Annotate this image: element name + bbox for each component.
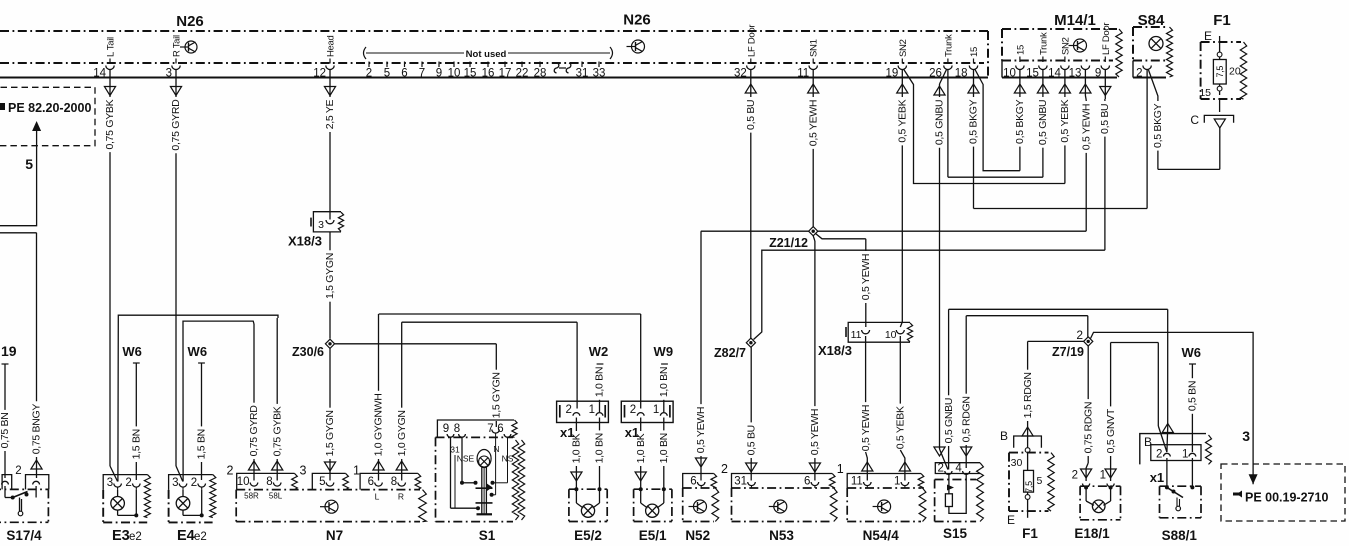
label S17/4 [6,528,42,543]
svg-text:3: 3 [318,219,324,231]
svg-text:15: 15 [1199,87,1211,99]
wire 0,5 YEWH Z21/12 to M14/1 pin13 [818,70,1093,232]
svg-text:0,5 GNBU: 0,5 GNBU [943,398,955,443]
svg-text:28: 28 [534,68,547,80]
svg-text:0,5 YEWH: 0,5 YEWH [860,254,872,300]
svg-text:0,5 BKGY: 0,5 BKGY [1014,99,1026,144]
svg-text:8: 8 [266,476,272,488]
svg-text:1: 1 [1100,470,1106,482]
svg-text:15: 15 [1026,68,1039,80]
fuse element 7,5A (top) [1199,36,1241,112]
wire 0,75 GYRD E4e2 pin3 to N7 pin10 58R [183,321,260,481]
svg-text:R Tail: R Tail [172,35,183,57]
svg-text:0,75 RDGN: 0,75 RDGN [1082,402,1094,454]
svg-text:11: 11 [851,476,863,488]
wire 2,5 YE N26 pin12 to X18/3 pin3 [324,70,336,220]
svg-text:2: 2 [721,462,728,476]
svg-text:6: 6 [804,476,810,488]
svg-text:E: E [1007,513,1015,527]
ground W6 (E4e2) [188,344,208,480]
svg-text:0,5 YEBK: 0,5 YEBK [897,99,909,142]
N26 pin 26 (Trunk) [929,34,954,95]
svg-text:3: 3 [172,477,178,489]
svg-text:15: 15 [969,47,980,57]
svg-text:S15: S15 [943,526,968,541]
svg-text:W6: W6 [122,344,142,359]
svg-text:1,5 BN: 1,5 BN [131,429,143,459]
svg-text:5: 5 [25,156,33,172]
reference box PE 82.20-2000 [0,87,95,145]
wire 0,5 BKGY N26 pin18 to M14/1 pin10 [975,70,1026,171]
N26 pin 11 (SN1) [797,39,819,93]
N26 pin 32 (LF Door) [734,25,757,93]
svg-text:31: 31 [734,476,747,488]
svg-text:E5/1: E5/1 [639,528,667,543]
svg-text:2: 2 [1076,328,1083,342]
svg-text:2: 2 [937,463,943,475]
svg-text:0,5 GNBU: 0,5 GNBU [1037,100,1049,145]
label M14/1 [1054,12,1096,29]
lamp-monitor symbol in N26 (center) [627,40,645,53]
svg-text:1: 1 [1182,449,1188,461]
svg-text:Not used: Not used [466,49,507,60]
svg-text:PE 82.20-2000: PE 82.20-2000 [8,101,91,115]
solder joint Z7/19 [1052,328,1093,359]
label N26 (left) [176,13,204,30]
svg-text:32: 32 [734,68,747,80]
switch S17/4 [0,465,49,522]
svg-text:W6: W6 [188,344,208,359]
svg-text:0,5 YEBK: 0,5 YEBK [1059,99,1071,142]
svg-text:6: 6 [368,476,374,488]
svg-text:F1: F1 [1213,12,1231,29]
control unit M14/1 box [1002,29,1122,78]
svg-text:F1: F1 [1022,526,1038,541]
wire 1,5 GYGN X18/3 to Z30/6 [324,232,336,339]
wire 0,5 GNVT E18/1 pin1 to S88/1 pin2 [1105,343,1167,482]
svg-text:N26: N26 [623,12,651,29]
switch S88/1 [1160,458,1202,518]
wire 0,5 YEWH Z21/12 to N52 pin6 [695,231,808,480]
wire 1,0 GYGN N7 pin8 to x1 (W2) [396,322,577,480]
solder joint Z30/6 [292,339,335,359]
N26 unused pin numbers row [366,62,606,80]
connector B bracket (F1) [1000,429,1041,448]
svg-text:2: 2 [125,477,131,489]
svg-text:Trunk: Trunk [943,34,954,57]
lamp E18/1 [1072,470,1121,520]
svg-text:Z30/6: Z30/6 [292,345,324,359]
svg-text:0,5 BU: 0,5 BU [745,425,757,455]
svg-text:1,5 BN: 1,5 BN [196,429,208,459]
svg-text:26: 26 [929,68,942,80]
svg-text:E: E [1204,29,1212,43]
label S15 [943,526,968,541]
svg-text:1,0 GYGN: 1,0 GYGN [396,410,408,456]
label S1 [479,528,496,543]
svg-text:2: 2 [565,404,571,416]
svg-text:C: C [1190,113,1199,127]
lamp-monitor symbol in N26 (left) [180,41,197,53]
svg-text:2: 2 [15,465,21,477]
S84 pin 2 [1136,66,1151,80]
wire 1,5 GYGN Z30/6 to N7 pin5 [324,349,336,481]
wire 0,5 YEWH Z21/12 to X18/3 pin11 [816,234,873,328]
svg-text:N52: N52 [685,528,710,543]
svg-text:8: 8 [454,423,460,435]
svg-text:58L: 58L [269,492,283,501]
svg-text:0,5 YEBK: 0,5 YEBK [895,406,907,449]
wire 0,5 BKGY S84 pin2 to F1 C [1149,70,1220,169]
svg-text:1: 1 [894,476,900,488]
wire 0,75 GYRD N26 pin3 to E4e2 pin3 [170,70,183,482]
svg-text:0,75 GYBK: 0,75 GYBK [271,406,283,456]
svg-text:15: 15 [1015,45,1026,55]
svg-text:10: 10 [448,68,461,80]
svg-text:8: 8 [391,476,397,488]
svg-text:W9: W9 [654,344,674,359]
svg-text:LF Door: LF Door [746,25,757,57]
label N53 [769,528,794,543]
svg-text:0,5 GNBU: 0,5 GNBU [934,100,946,145]
wire 0,5 YEWH N26 pin11 to N53 pin6 through Z21/12 [807,70,821,481]
svg-text:20: 20 [1229,66,1241,78]
svg-text:E18/1: E18/1 [1074,526,1110,541]
M14/1 pin 9 (LF Door) [1095,23,1112,80]
svg-text:0,5 YEWH: 0,5 YEWH [1080,104,1092,150]
wire 0,5 YEBK N26 pin19 to X18/3 pin10 [897,70,909,328]
svg-text:0,5 YEWH: 0,5 YEWH [695,407,707,453]
control module N52 [683,474,719,522]
svg-text:SN2: SN2 [898,39,909,57]
wire 0,5 GNBU N26 pin26 to M14/1 pin15 [948,70,1049,178]
svg-text:1,0 BN: 1,0 BN [658,433,670,463]
control module N53 [721,462,837,522]
svg-text:19: 19 [886,68,899,80]
label F1 (top) [1213,12,1231,29]
svg-text:S84: S84 [1138,12,1165,29]
svg-text:10: 10 [885,329,897,341]
svg-text:1,0 BN: 1,0 BN [658,367,670,397]
svg-text:e2: e2 [129,531,142,543]
svg-text:N: N [493,444,499,454]
switch S15 [935,463,984,522]
svg-text:3: 3 [107,477,113,489]
connector x1 (W9) [621,401,673,440]
svg-text:1: 1 [589,404,595,416]
svg-text:SN2: SN2 [1060,37,1071,55]
N26 pin 19 (SN2) [886,39,909,93]
label S88/1 [1162,528,1198,543]
svg-text:4: 4 [955,463,962,475]
fuse F1 (bottom) [1007,448,1054,527]
svg-text:0,75 GYRD: 0,75 GYRD [170,99,182,151]
svg-text:0,5 BKGY: 0,5 BKGY [1152,103,1164,148]
svg-text:1,5 GYGN: 1,5 GYGN [491,372,503,418]
svg-text:1,5 GYGN: 1,5 GYGN [324,410,336,456]
svg-text:1,0 BN: 1,0 BN [594,367,606,397]
tail lamp E3e2 [103,475,150,523]
svg-text:N53: N53 [769,528,794,543]
svg-text:0,5 BU: 0,5 BU [1099,104,1111,134]
svg-text:16: 16 [482,68,495,80]
connector x1 (S88/1) with housing B [1140,434,1212,485]
solder joint Z82/7 [714,338,755,360]
svg-text:X18/3: X18/3 [818,343,852,358]
svg-text:1,0 GYGNWH: 1,0 GYGNWH [373,393,385,456]
svg-text:1: 1 [353,464,360,478]
svg-text:3: 3 [300,464,307,478]
control module N54/4 [837,462,926,522]
svg-text:9: 9 [1095,68,1101,80]
label E3e2 [112,528,142,544]
svg-text:14: 14 [1048,68,1061,80]
svg-text:0,5 YEWH: 0,5 YEWH [860,405,872,451]
svg-text:6: 6 [401,68,407,80]
svg-text:14: 14 [93,68,106,80]
svg-text:5: 5 [384,68,390,80]
wire 0,5 YEBK N26 pin19 to M14/1 pin14 [904,70,1071,184]
wire 0,75 RDGN Z7/19 to E18/1 pin2 [1081,346,1095,481]
svg-text:5: 5 [319,476,325,488]
svg-text:2: 2 [191,477,197,489]
svg-text:31: 31 [576,68,589,80]
svg-text:1: 1 [837,462,844,476]
svg-text:0,75 BN: 0,75 BN [0,412,11,448]
wire 0,5 YEBK X18/3 pin10 to N54/4 pin1 [895,336,911,481]
ground W6 (S88/1) [1181,345,1201,452]
svg-text:1: 1 [653,404,659,416]
svg-text:0,5 GNVT: 0,5 GNVT [1105,408,1117,453]
wire 1,0 GYGNWH N7 pin6 to x1 (W9) [373,314,641,481]
svg-text:2: 2 [227,464,234,478]
M14/1 pin 15 (Trunk) [1026,32,1049,79]
label N7 [326,528,343,543]
wire 0,5 BU N26 pin32 to N53 pin31 through Z82/7 [745,70,757,481]
wire 0,5 RDGN S15 pin4 to Z7/19 [960,316,1087,468]
N26 pin 18 (15) [955,47,980,93]
wire 0,5 YEWH X18/3 pin11 to N54/4 pin11 [860,336,873,481]
svg-text:Z82/7: Z82/7 [714,346,746,360]
svg-text:e2: e2 [194,531,207,543]
svg-text:2: 2 [1156,449,1162,461]
M14/1 pin 14 (SN2) [1048,37,1071,79]
svg-text:S88/1: S88/1 [1162,528,1198,543]
wire 1,5 GYGN Z30/6 to S1 pin7 [335,344,503,427]
svg-text:0,75 BNGY: 0,75 BNGY [31,404,43,455]
svg-text:0,5 BKGY: 0,5 BKGY [968,99,980,144]
svg-text:E5/2: E5/2 [574,528,602,543]
svg-text:3: 3 [1242,428,1250,444]
svg-text:6: 6 [497,423,503,435]
svg-text:0,75 GYRD: 0,75 GYRD [248,405,260,457]
wire 0,5 GNBU N26 pin26 to S15 pin2 [934,70,948,470]
ground W9 [654,344,674,412]
svg-text:2: 2 [1136,68,1142,80]
wire 0,5 GNBU S15 pin2 to S88/1 pin2 [943,309,1174,469]
svg-text:7,5: 7,5 [1215,66,1225,78]
svg-text:9: 9 [436,68,442,80]
svg-text:0,5 BN: 0,5 BN [1187,381,1199,411]
svg-text:3: 3 [166,68,172,80]
svg-text:11: 11 [851,329,862,341]
control unit N26 box [0,31,988,78]
svg-text:Z21/12: Z21/12 [769,236,808,250]
svg-text:7: 7 [419,68,425,80]
svg-text:W2: W2 [589,344,609,359]
svg-text:1,0 BN: 1,0 BN [594,433,606,463]
svg-text:x1: x1 [1150,470,1164,485]
svg-text:NSE: NSE [457,454,475,464]
label F1 (bottom) [1022,526,1038,541]
svg-text:S1: S1 [479,528,496,543]
svg-text:17: 17 [499,68,512,80]
svg-text:13: 13 [1069,68,1082,80]
svg-text:L: L [375,492,380,502]
connector C bracket [1190,113,1233,128]
M14/1 pin 10 (15) [1003,45,1026,79]
ground W2 [589,344,609,412]
svg-text:Trunk: Trunk [1038,32,1049,55]
svg-text:2: 2 [1072,470,1078,482]
turn signal lamp E5/1 [634,418,672,522]
label S84 [1138,12,1165,29]
wire reference 3 Z7/19 to PE 00.19-2710 [1091,332,1258,484]
svg-text:7,5: 7,5 [1024,481,1034,493]
svg-text:N26: N26 [176,13,204,30]
boot lamp S84 box [1133,27,1173,78]
svg-text:PE 00.19-2710: PE 00.19-2710 [1245,491,1328,505]
svg-text:0,5 BU: 0,5 BU [745,100,757,130]
svg-text:N54/4: N54/4 [863,528,900,543]
svg-text:33: 33 [593,68,606,80]
svg-text:0,5 RDGN: 0,5 RDGN [960,396,972,442]
tail lamp E4e2 [169,475,216,523]
wire 0,5 BKGY N26 pin18 to S84 pin2 [968,70,1147,209]
svg-text:W6: W6 [1181,345,1201,360]
solder joint Z21/12 [769,227,818,250]
label E5/1 [639,528,667,543]
lamp in S84 [1149,37,1163,51]
terminal E label (top) [1204,29,1212,43]
svg-text:22: 22 [516,68,529,80]
wire 0,75 GYBK N26 pin14 to E3e2 pin3 [104,70,117,482]
svg-text:0,5 YEWH: 0,5 YEWH [809,409,821,455]
svg-text:18: 18 [955,68,968,80]
connector x1 (W2) [557,401,609,440]
svg-text:S17/4: S17/4 [6,528,42,543]
svg-text:1,5 RDGN: 1,5 RDGN [1022,372,1034,418]
svg-text:1,0 BK: 1,0 BK [571,433,583,463]
svg-text:N7: N7 [326,528,343,543]
column switch S1 [436,420,525,522]
control unit N7 [227,464,427,522]
wire 1,5 RDGN Z7/19 to F1 (30) [1022,341,1084,447]
lamp-monitor symbol in M14/1 [1069,39,1087,52]
label E18/1 [1074,526,1110,541]
svg-text:2: 2 [630,404,636,416]
svg-text:2,5 YE: 2,5 YE [324,99,336,129]
svg-text:30: 30 [1011,457,1023,469]
svg-text:12: 12 [313,68,326,80]
terminal 19 pickup [0,343,17,478]
svg-text:1,5 GYGN: 1,5 GYGN [324,253,336,299]
svg-text:6: 6 [690,476,696,488]
label N52 [685,528,710,543]
M14/1 pin 13 [1069,66,1090,80]
N26 pin 12 (Head) [313,35,336,95]
svg-text:58R: 58R [244,492,259,501]
svg-text:E4: E4 [177,528,195,544]
svg-text:1,0 BK: 1,0 BK [635,433,647,463]
label E5/2 [574,528,602,543]
svg-text:19: 19 [1,343,17,359]
svg-text:X18/3: X18/3 [288,234,322,249]
reference box PE 00.19-2710 [1221,464,1345,521]
wire reference 5 to PE 82.20-2000 [0,121,41,226]
svg-text:2: 2 [366,68,372,80]
svg-text:LF Door: LF Door [1101,23,1112,55]
svg-text:9: 9 [443,423,449,435]
svg-text:0,75 GYBK: 0,75 GYBK [104,99,116,149]
label E4e2 [177,528,207,544]
wire 0,5 BU Z82/7 to M14/1 pin9 [754,70,1112,340]
Not used bracket [364,47,613,60]
wire 0,75 GYBK E3e2 pin3 to N7 pin8 58L [118,315,284,481]
svg-text:10: 10 [1003,68,1016,80]
svg-text:R: R [398,492,404,502]
svg-text:SN1: SN1 [809,39,820,57]
svg-text:15: 15 [464,68,477,80]
svg-text:Head: Head [326,35,337,57]
svg-text:L Tail: L Tail [106,37,117,57]
label N26 (center) [623,12,651,29]
svg-text:E3: E3 [112,528,130,544]
connector X18/3 (pin 3) [288,212,344,249]
svg-text:11: 11 [797,68,809,80]
N26 pin 3 (R Tail) [166,35,183,95]
fuse F1 (top) box [1201,42,1247,99]
label N54/4 [863,528,900,543]
svg-text:0,5 YEWH: 0,5 YEWH [807,100,819,146]
svg-text:M14/1: M14/1 [1054,12,1096,29]
svg-text:B: B [1000,429,1008,443]
svg-text:10: 10 [237,476,250,488]
ground W6 (E3e2) [122,344,142,480]
connector X18/3 (pins 11,10) [818,322,913,358]
svg-text:5: 5 [1037,475,1043,487]
svg-text:7: 7 [487,423,493,435]
wire 0,75 BNGY to S17/4 pin [0,233,43,478]
N26 pin 14 (L Tail) [93,37,116,96]
turn signal lamp E5/2 [569,418,607,522]
svg-text:Z7/19: Z7/19 [1052,345,1084,359]
